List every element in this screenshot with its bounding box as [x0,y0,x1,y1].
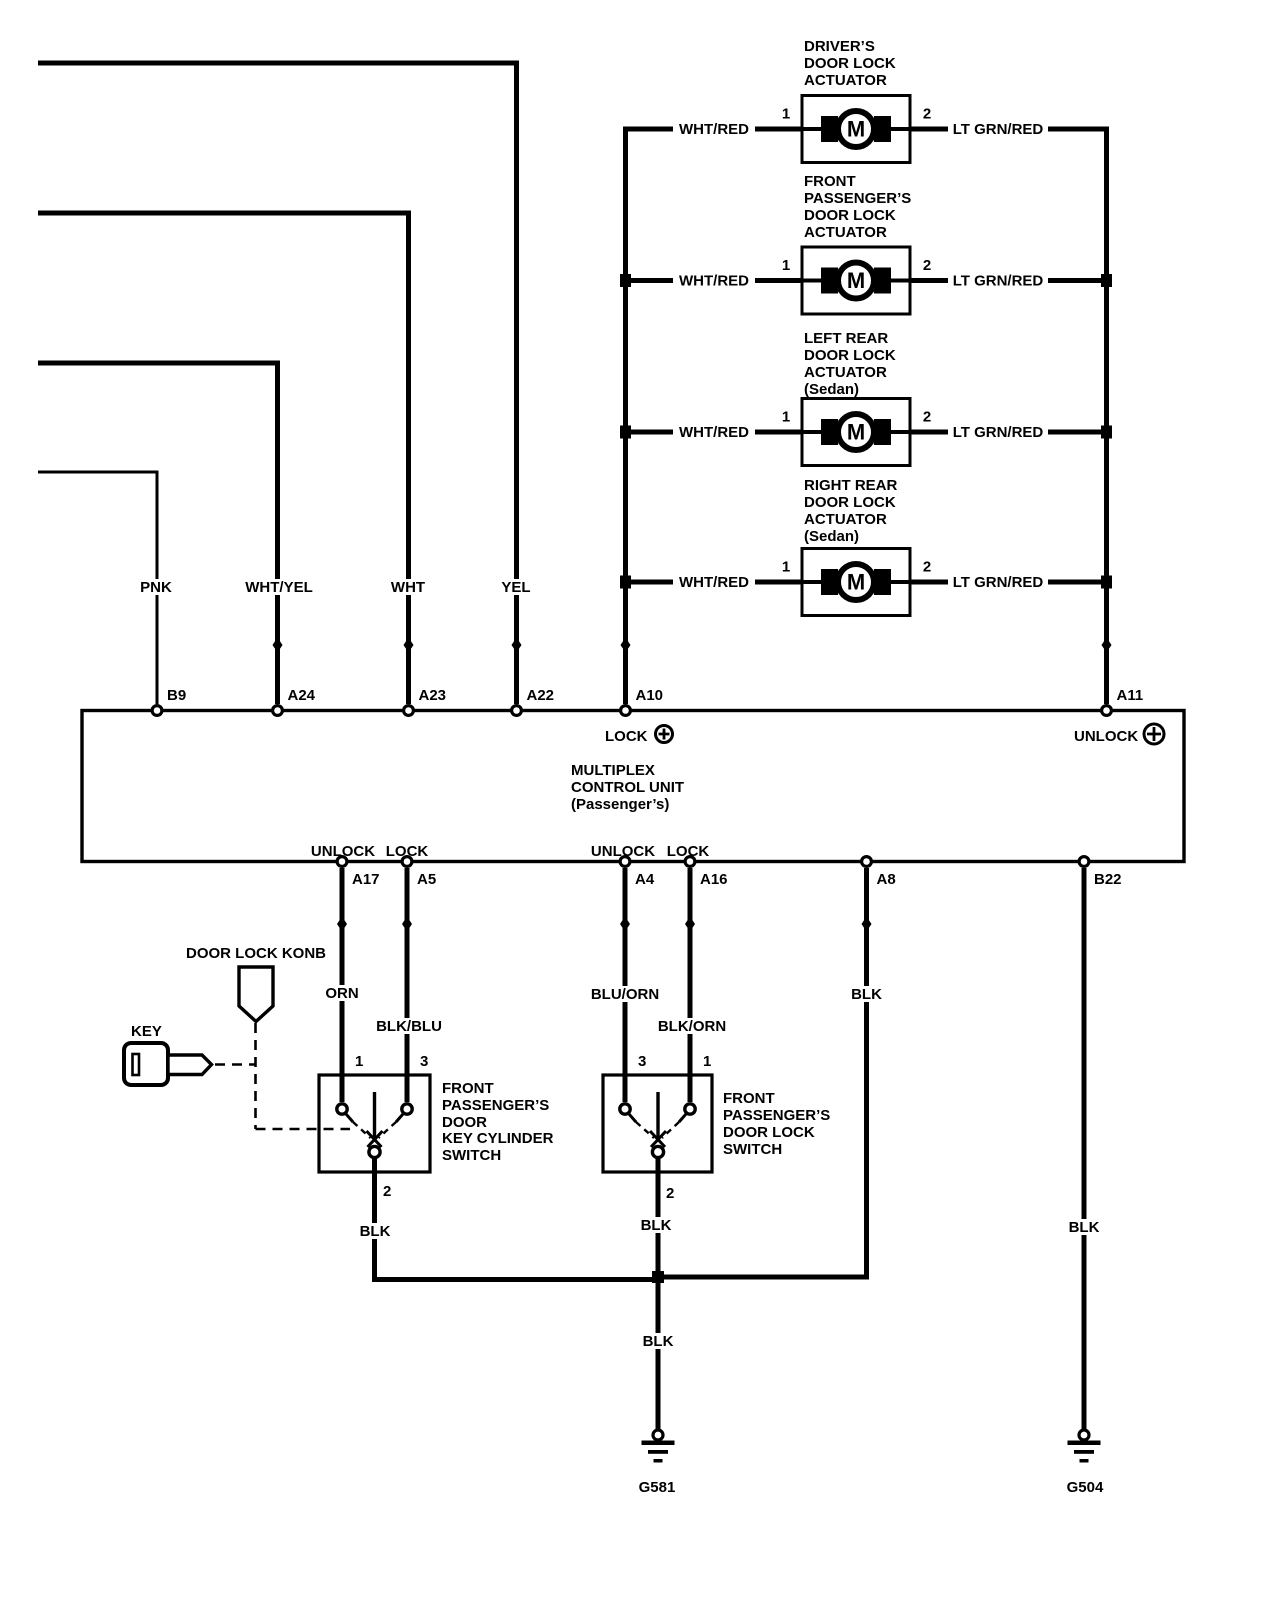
wire WHT/RED row 1 [626,127,803,132]
svg-text:DOOR LOCK: DOOR LOCK [804,55,896,72]
node A4 [620,857,630,867]
arrow on A8 BLK wire [862,917,872,932]
wire LT GRN/RED row 1 [910,127,1107,132]
svg-text:LOCK: LOCK [386,843,429,860]
svg-text:1: 1 [782,559,790,576]
svg-text:PASSENGER’S: PASSENGER’S [804,190,911,207]
motor U4 left brush tab [821,569,838,595]
label PNK [136,579,176,595]
wire BLK from door lock switch pin 2 [656,1158,661,1277]
label LT GRN/RED row 2 [948,273,1048,289]
svg-text:ACTUATOR: ACTUATOR [804,364,887,381]
label WHT/RED row 1 [673,121,755,137]
wire through actuator U2 [802,279,910,283]
arrow on UNLOCK bus [1102,638,1112,653]
svg-text:1: 1 [782,257,790,274]
junction of ground wires [652,1271,664,1283]
label ORN [320,985,364,1001]
arrow on BLU/ORN wire [620,917,630,932]
svg-text:MULTIPLEX: MULTIPLEX [571,762,655,779]
label WHT/RED row 2 [673,273,755,289]
wire BLK junction to ground G581 [656,1277,661,1429]
svg-text:PNK: PNK [140,579,172,596]
motor U3 right brush tab [874,419,891,445]
label BLK on B22 wire [1064,1219,1104,1235]
svg-text:A16: A16 [700,871,728,888]
arrow on WHT/YEL wire [273,638,283,653]
svg-text:LEFT REAR: LEFT REAR [804,330,888,347]
motor U3 left brush tab [821,419,838,445]
svg-text:FRONT: FRONT [723,1090,775,1107]
door lock actuator U1 box [802,96,910,163]
svg-text:WHT/YEL: WHT/YEL [245,579,313,596]
label YEL [498,579,534,595]
wire through actuator U3 [802,430,910,434]
svg-text:WHT/RED: WHT/RED [679,121,749,138]
node A23 [404,706,414,716]
motor U4 M circle [838,564,874,600]
front passenger door key cylinder switch S1 [319,1075,430,1172]
svg-text:2: 2 [923,559,931,576]
label BLK on A8 wire [847,986,887,1002]
ground G504 [1079,1430,1089,1440]
node A10 [621,706,631,716]
svg-text:WHT/RED: WHT/RED [679,424,749,441]
svg-text:BLK: BLK [1069,1219,1100,1236]
node A11 [1102,706,1112,716]
svg-text:A4: A4 [635,871,655,888]
node A17 [337,857,347,867]
svg-text:1: 1 [782,409,790,426]
door lock actuator U2 box [802,247,910,314]
label BLK below key cylinder switch [355,1223,395,1239]
svg-text:(Sedan): (Sedan) [804,381,859,398]
motor U1 left brush tab [821,116,838,142]
svg-text:DOOR: DOOR [442,1114,487,1131]
motor U1 right brush tab [874,116,891,142]
svg-text:M: M [847,117,865,142]
wire WHT from left edge, corner down to control unit [38,213,409,704]
wire ORN from A17 to key cylinder switch pin 1 [340,868,345,1103]
svg-text:B9: B9 [167,687,186,704]
wire through actuator U1 [802,127,910,131]
svg-text:A11: A11 [1117,687,1144,704]
wire through actuator U4 [802,580,910,584]
multiplex control unit box [82,711,1184,862]
motor U2 M circle [838,263,874,299]
svg-text:WHT/RED: WHT/RED [679,574,749,591]
svg-text:1: 1 [782,106,790,123]
label WHT/YEL [241,579,317,595]
svg-text:2: 2 [923,257,931,274]
arrow on YEL wire [512,638,522,653]
svg-text:DOOR LOCK KONB: DOOR LOCK KONB [186,945,326,962]
svg-text:DOOR LOCK: DOOR LOCK [804,347,896,364]
svg-text:FRONT: FRONT [442,1080,494,1097]
motor U3 M circle [838,414,874,450]
svg-text:DOOR LOCK: DOOR LOCK [723,1124,815,1141]
svg-text:PASSENGER’S: PASSENGER’S [442,1097,549,1114]
wire PNK from left edge, corner down to control unit [38,472,157,704]
svg-text:2: 2 [383,1183,391,1200]
svg-text:BLK/ORN: BLK/ORN [658,1018,726,1035]
svg-text:SWITCH: SWITCH [723,1141,782,1158]
door lock actuator U3 box [802,399,910,466]
svg-text:BLK: BLK [360,1223,391,1240]
svg-text:WHT: WHT [391,579,425,596]
svg-text:M: M [847,268,865,293]
svg-text:3: 3 [420,1053,428,1070]
wire WHT/RED row 4 [626,580,803,585]
label WHT/RED row 3 [673,424,755,440]
svg-text:UNLOCK: UNLOCK [591,843,655,860]
svg-text:CONTROL UNIT: CONTROL UNIT [571,779,684,796]
svg-text:M: M [847,420,865,445]
wire BLK from key cylinder switch pin 2 [375,1158,662,1280]
label BLK/BLU [373,1018,445,1034]
wire BLU/ORN from A4 to door lock switch pin 3 [623,868,628,1103]
svg-text:PASSENGER’S: PASSENGER’S [723,1107,830,1124]
label LT GRN/RED row 1 [948,121,1048,137]
label BLU/ORN [587,986,663,1002]
svg-text:ACTUATOR: ACTUATOR [804,72,887,89]
svg-text:DOOR LOCK: DOOR LOCK [804,494,896,511]
svg-text:A10: A10 [636,687,664,704]
svg-text:1: 1 [355,1053,363,1070]
svg-text:WHT/RED: WHT/RED [679,273,749,290]
svg-text:UNLOCK: UNLOCK [1074,728,1138,745]
label LT GRN/RED row 3 [948,424,1048,440]
svg-text:A17: A17 [352,871,380,888]
junction left bus row 2 [620,274,631,287]
svg-text:KEY: KEY [131,1023,162,1040]
label BLK/ORN [654,1018,730,1034]
ground G581 [653,1430,663,1440]
svg-text:BLU/ORN: BLU/ORN [591,986,659,1003]
svg-text:BLK: BLK [643,1333,674,1350]
svg-text:B22: B22 [1094,871,1122,888]
motor U2 right brush tab [874,268,891,294]
wire LT GRN/RED row 4 [910,580,1107,585]
node A5 [402,857,412,867]
dashed link key to switch [215,1063,255,1066]
junction right bus row 2 [1101,274,1112,287]
motor U4 right brush tab [874,569,891,595]
svg-text:ACTUATOR: ACTUATOR [804,511,887,528]
svg-text:BLK: BLK [641,1217,672,1234]
wire BLK/BLU from A5 to key cylinder switch pin 3 [405,868,410,1103]
svg-text:ACTUATOR: ACTUATOR [804,224,887,241]
svg-text:RIGHT REAR: RIGHT REAR [804,477,898,494]
node A8 [862,857,872,867]
junction right bus row 3 [1101,426,1112,439]
label WHT [387,579,429,595]
svg-text:LT GRN/RED: LT GRN/RED [953,273,1044,290]
motor U2 left brush tab [821,268,838,294]
door lock actuator U4 box [802,549,910,616]
svg-text:A8: A8 [877,871,896,888]
svg-text:LOCK: LOCK [605,728,648,745]
node A22 [512,706,522,716]
dashed link knob to switch [256,1023,351,1129]
svg-text:LT GRN/RED: LT GRN/RED [953,121,1044,138]
svg-text:A23: A23 [419,687,447,704]
svg-text:LT GRN/RED: LT GRN/RED [953,574,1044,591]
svg-text:1: 1 [703,1053,711,1070]
arrow on ORN wire [337,917,347,932]
wire WHT/RED row 2 [626,278,803,283]
svg-text:ORN: ORN [325,985,358,1002]
node B9 [152,706,162,716]
node A16 [685,857,695,867]
svg-text:BLK: BLK [851,986,882,1003]
svg-text:M: M [847,570,865,595]
svg-text:LOCK: LOCK [667,843,710,860]
svg-text:BLK/BLU: BLK/BLU [376,1018,442,1035]
wire LT GRN/RED row 2 [910,278,1107,283]
svg-text:(Passenger’s): (Passenger’s) [571,796,669,813]
wire BLK from B22 to ground G504 [1082,868,1087,1429]
label LT GRN/RED row 4 [948,574,1048,590]
wire WHT/YEL from left edge, corner down to control unit [38,363,278,704]
svg-text:(Sedan): (Sedan) [804,528,859,545]
arrow on LOCK bus [621,638,631,653]
wire LOCK bus to A10 [626,129,803,704]
key symbol [124,1043,168,1085]
svg-text:FRONT: FRONT [804,173,856,190]
wire BLK/ORN from A16 to door lock switch pin 1 [688,868,693,1103]
junction left bus row 4 [620,576,631,589]
node A24 [273,706,283,716]
svg-text:A5: A5 [417,871,436,888]
label BLK below door lock switch [636,1217,676,1233]
svg-text:UNLOCK: UNLOCK [311,843,375,860]
wire BLK from A8 down and left to ground junction [656,868,867,1277]
node B22 [1079,857,1089,867]
wire LT GRN/RED row 3 [910,430,1107,435]
wire UNLOCK bus to A11 [910,129,1107,704]
svg-text:KEY CYLINDER: KEY CYLINDER [442,1130,554,1147]
motor U1 M circle [838,111,874,147]
junction right bus row 4 [1101,576,1112,589]
svg-text:DRIVER’S: DRIVER’S [804,38,875,55]
label WHT/RED row 4 [673,574,755,590]
svg-text:DOOR LOCK: DOOR LOCK [804,207,896,224]
svg-text:G581: G581 [639,1479,676,1496]
svg-text:LT GRN/RED: LT GRN/RED [953,424,1044,441]
wire WHT/RED row 3 [626,430,803,435]
arrow on WHT wire [404,638,414,653]
svg-text:3: 3 [638,1053,646,1070]
svg-text:2: 2 [923,106,931,123]
junction left bus row 3 [620,426,631,439]
front passenger door lock switch S2 [603,1075,712,1172]
door lock knob symbol [239,967,273,1022]
svg-text:SWITCH: SWITCH [442,1147,501,1164]
label BLK above G581 [638,1333,678,1349]
svg-text:A24: A24 [288,687,316,704]
svg-text:A22: A22 [527,687,555,704]
arrow on BLK/ORN wire [685,917,695,932]
svg-text:2: 2 [666,1185,674,1202]
wire YEL from left edge, corner down to control unit [38,63,517,704]
arrow on BLK/BLU wire [402,917,412,932]
svg-text:G504: G504 [1067,1479,1104,1496]
svg-text:2: 2 [923,409,931,426]
svg-text:YEL: YEL [501,579,530,596]
